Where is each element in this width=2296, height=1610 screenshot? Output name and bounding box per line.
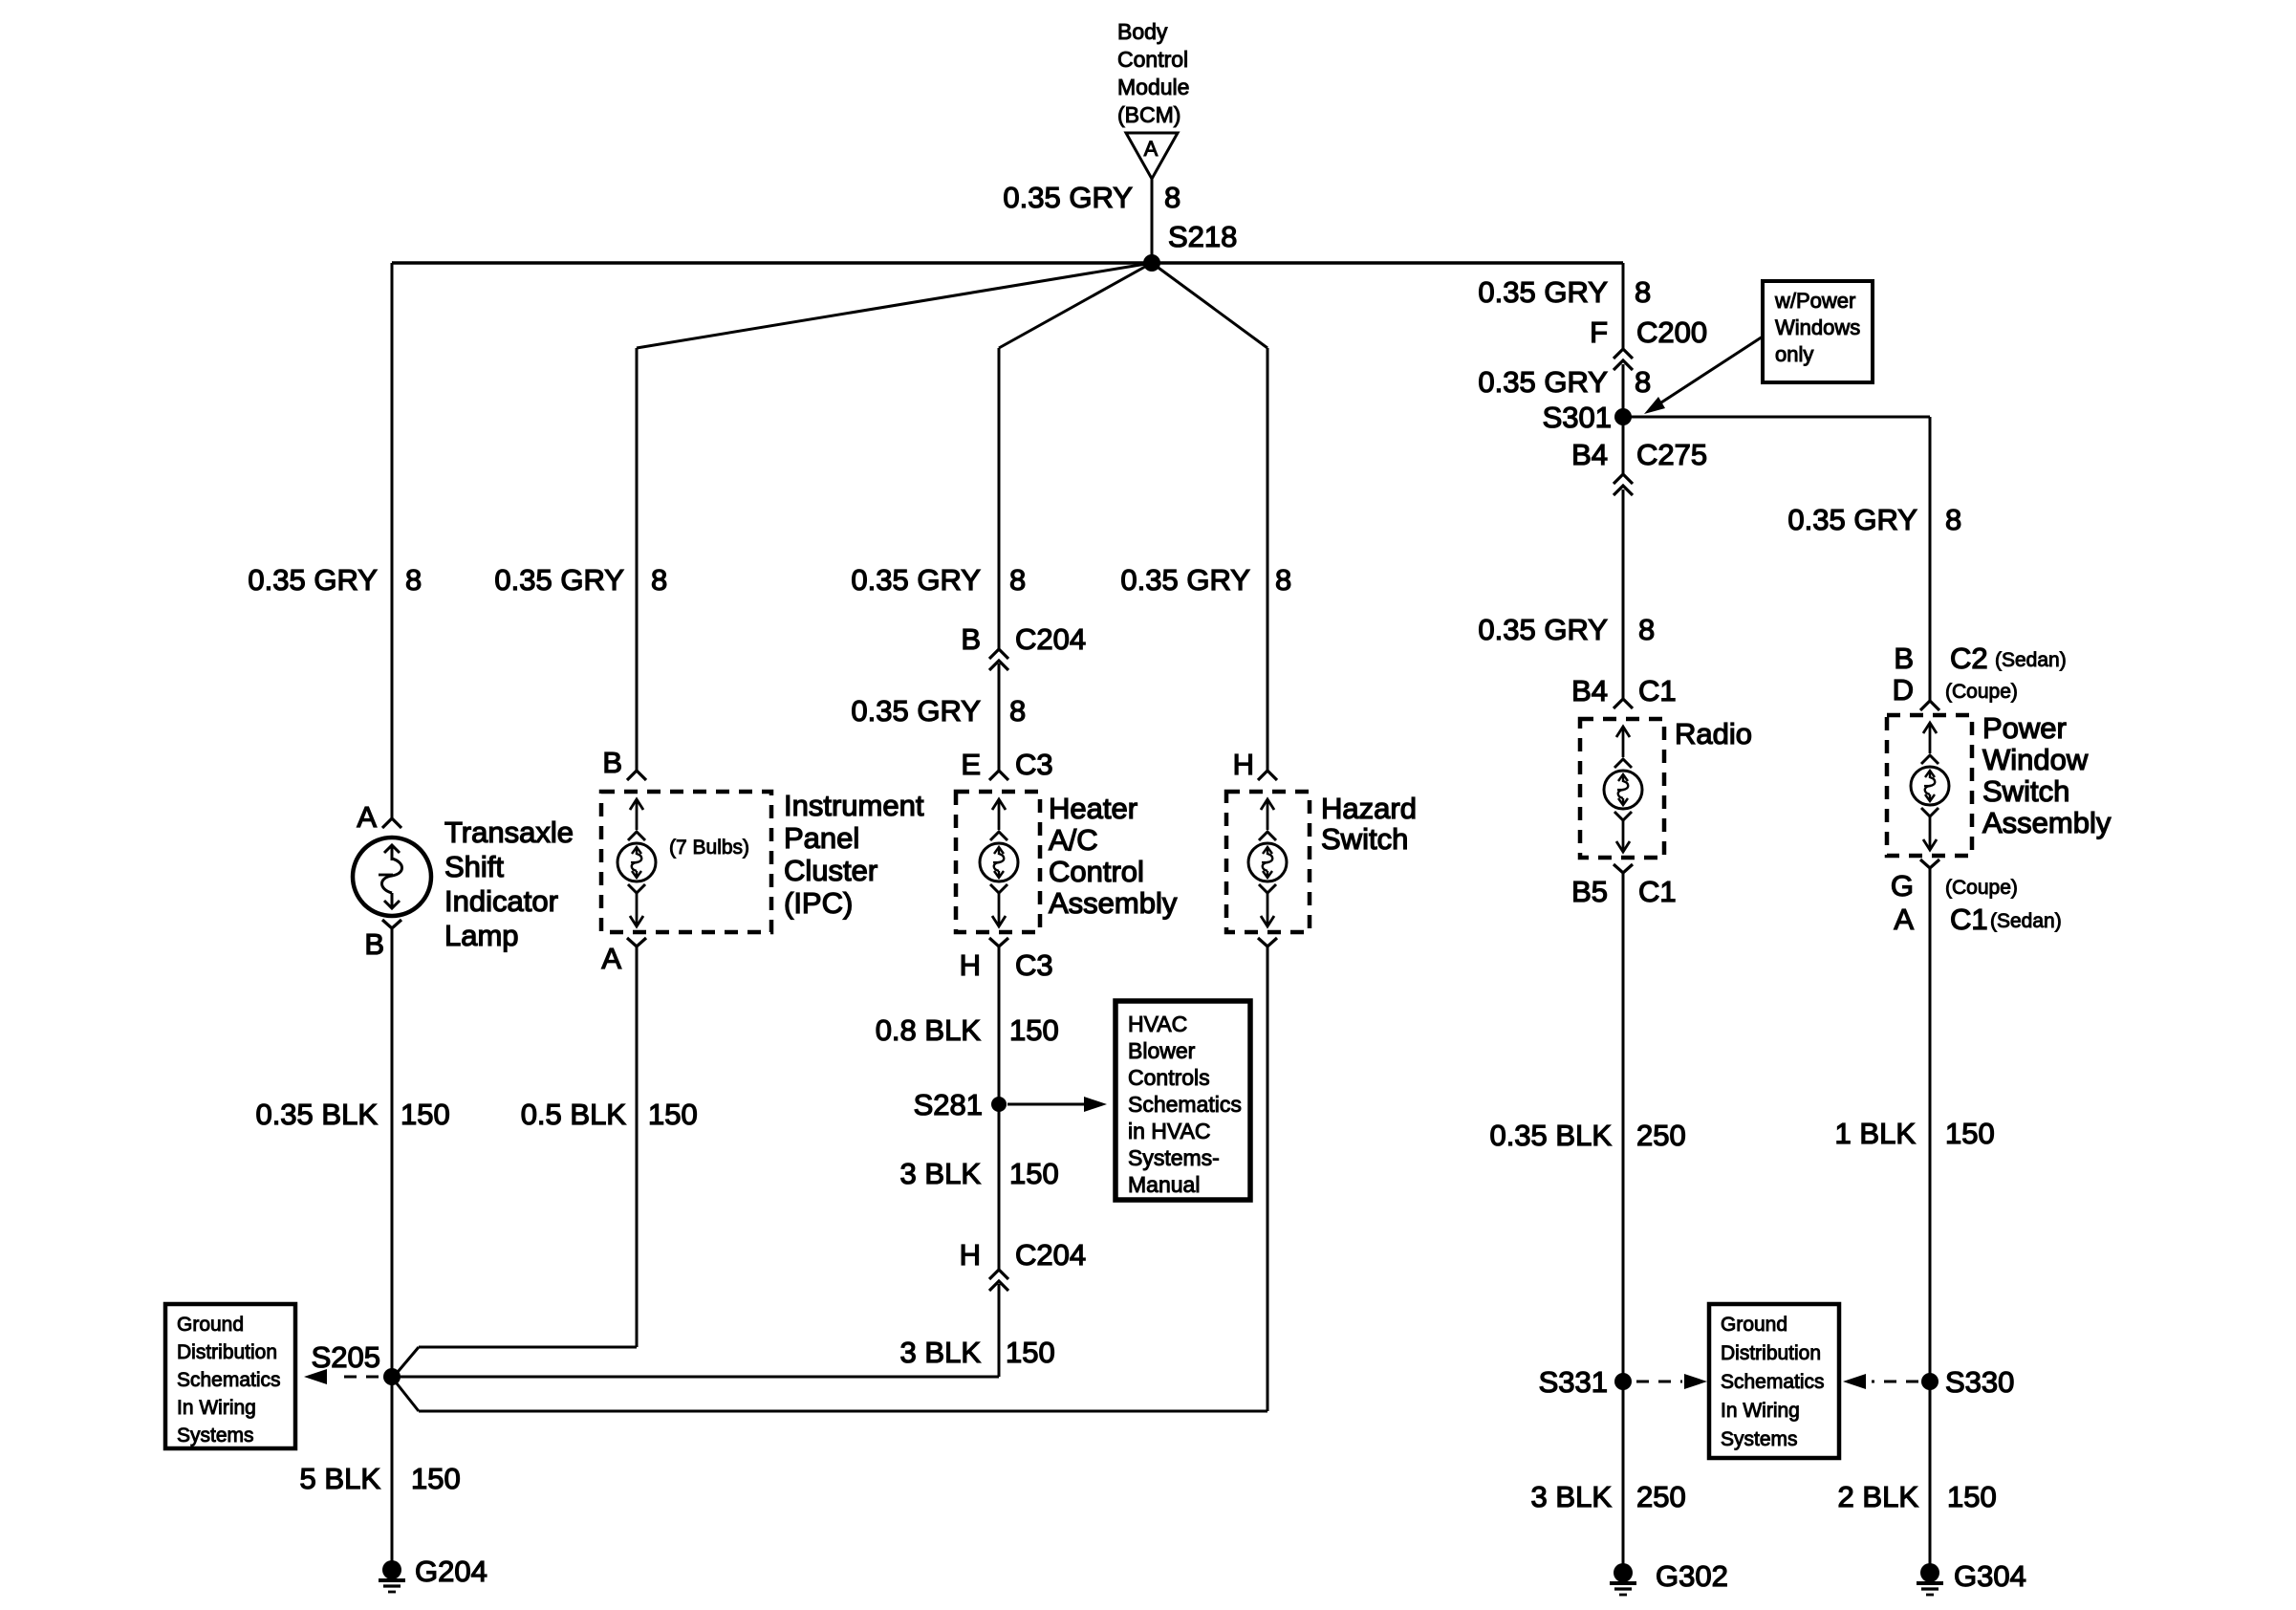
svg-text:C275: C275 [1636,438,1707,471]
svg-text:D: D [1893,673,1914,707]
svg-text:Shift: Shift [444,850,504,883]
svg-text:S301: S301 [1543,401,1612,434]
svg-text:Blower: Blower [1128,1038,1196,1063]
svg-text:B: B [961,622,981,656]
svg-text:B4: B4 [1571,438,1608,471]
svg-text:S331: S331 [1539,1365,1608,1399]
svg-text:Assembly: Assembly [1982,806,2112,839]
svg-text:Distribution: Distribution [1721,1342,1821,1364]
svg-text:Systems-: Systems- [1128,1145,1220,1170]
svg-text:1 BLK: 1 BLK [1835,1117,1917,1150]
svg-text:0.35 GRY: 0.35 GRY [494,563,624,597]
svg-text:0.8 BLK: 0.8 BLK [876,1013,982,1047]
svg-text:In Wiring: In Wiring [177,1397,256,1419]
svg-text:Heater: Heater [1049,792,1137,825]
svg-text:Module: Module [1117,75,1189,99]
svg-text:Systems: Systems [177,1425,254,1447]
svg-text:C200: C200 [1636,315,1707,349]
svg-text:250: 250 [1636,1119,1686,1152]
svg-text:3 BLK: 3 BLK [900,1336,982,1369]
svg-text:3 BLK: 3 BLK [900,1157,982,1190]
svg-text:3 BLK: 3 BLK [1531,1480,1613,1513]
svg-text:H: H [1233,748,1254,781]
svg-text:Controls: Controls [1128,1065,1210,1090]
svg-text:A: A [1144,137,1159,161]
svg-text:150: 150 [411,1462,461,1495]
svg-text:S281: S281 [914,1088,983,1121]
svg-text:8: 8 [1275,563,1291,597]
svg-text:Body: Body [1117,19,1168,44]
svg-text:A: A [601,942,621,975]
svg-text:(Coupe): (Coupe) [1945,681,2018,703]
svg-text:250: 250 [1636,1480,1686,1513]
svg-text:B: B [602,746,622,779]
svg-text:Radio: Radio [1675,717,1752,751]
svg-text:8: 8 [1945,503,1961,536]
svg-text:0.35 GRY: 0.35 GRY [1478,275,1608,309]
svg-text:Control: Control [1049,855,1144,888]
svg-text:8: 8 [1635,275,1651,309]
svg-text:C3: C3 [1015,948,1053,982]
svg-text:A: A [1894,903,1914,936]
svg-text:150: 150 [1945,1117,1995,1150]
svg-text:0.35 GRY: 0.35 GRY [851,563,981,597]
svg-text:Switch: Switch [1982,774,2069,808]
svg-text:(7 Bulbs): (7 Bulbs) [669,837,749,859]
svg-text:C204: C204 [1015,622,1086,656]
svg-text:Panel: Panel [784,821,859,855]
svg-text:In Wiring: In Wiring [1721,1400,1800,1422]
svg-text:8: 8 [1635,365,1651,399]
svg-text:B: B [364,927,384,961]
svg-text:8: 8 [1009,694,1026,728]
svg-text:B: B [1894,642,1914,675]
svg-text:150: 150 [1947,1480,1997,1513]
svg-text:(Sedan): (Sedan) [1995,649,2067,671]
svg-text:Lamp: Lamp [444,919,519,952]
svg-text:150: 150 [1009,1157,1059,1190]
svg-text:8: 8 [1164,181,1180,214]
svg-text:150: 150 [648,1098,698,1131]
svg-text:Ground: Ground [1721,1314,1787,1336]
svg-text:C1: C1 [1638,875,1677,908]
svg-text:150: 150 [401,1098,450,1131]
svg-text:0.35 GRY: 0.35 GRY [1478,365,1608,399]
svg-text:2 BLK: 2 BLK [1838,1480,1919,1513]
svg-text:8: 8 [1638,613,1655,646]
svg-text:Windows: Windows [1775,315,1860,339]
svg-text:(Coupe): (Coupe) [1945,877,2018,899]
svg-text:Hazard: Hazard [1321,792,1417,825]
svg-text:0.35 GRY: 0.35 GRY [1120,563,1250,597]
svg-text:8: 8 [405,563,422,597]
svg-text:G302: G302 [1656,1559,1728,1593]
svg-text:Manual: Manual [1128,1172,1200,1197]
svg-text:Indicator: Indicator [444,884,558,918]
svg-text:Window: Window [1982,743,2089,776]
svg-text:Assembly: Assembly [1049,886,1178,920]
svg-text:Power: Power [1982,711,2067,745]
svg-text:C3: C3 [1015,748,1053,781]
svg-text:S218: S218 [1168,220,1237,253]
svg-text:F: F [1590,315,1608,349]
svg-text:(BCM): (BCM) [1117,102,1180,127]
svg-text:0.35 GRY: 0.35 GRY [1787,503,1917,536]
svg-text:HVAC: HVAC [1128,1012,1187,1036]
svg-text:in HVAC: in HVAC [1128,1119,1211,1143]
svg-text:H: H [960,1238,981,1272]
svg-text:(Sedan): (Sedan) [1990,910,2062,932]
svg-text:S330: S330 [1945,1365,2014,1399]
svg-text:0.35 BLK: 0.35 BLK [255,1098,378,1131]
svg-text:(IPC): (IPC) [784,886,853,920]
svg-text:C204: C204 [1015,1238,1086,1272]
svg-text:0.35 GRY: 0.35 GRY [248,563,378,597]
svg-text:0.5 BLK: 0.5 BLK [521,1098,627,1131]
svg-text:G304: G304 [1954,1559,2026,1593]
svg-text:w/Power: w/Power [1774,289,1855,313]
svg-text:G204: G204 [415,1555,487,1588]
svg-text:0.35 GRY: 0.35 GRY [1003,181,1133,214]
svg-text:8: 8 [651,563,667,597]
svg-text:C1: C1 [1638,674,1677,707]
svg-text:Systems: Systems [1721,1428,1798,1450]
svg-text:Distribution: Distribution [177,1341,277,1363]
svg-text:B5: B5 [1571,875,1608,908]
svg-text:B4: B4 [1571,674,1608,707]
svg-text:A/C: A/C [1049,823,1098,857]
svg-text:Schematics: Schematics [1128,1092,1242,1117]
svg-text:150: 150 [1009,1013,1059,1047]
svg-text:C1: C1 [1950,903,1988,936]
svg-text:Switch: Switch [1321,822,1408,856]
svg-text:5 BLK: 5 BLK [300,1462,381,1495]
svg-text:Schematics: Schematics [177,1369,281,1391]
svg-text:8: 8 [1009,563,1026,597]
svg-text:A: A [357,800,377,834]
svg-text:C2: C2 [1950,642,1988,675]
svg-text:Cluster: Cluster [784,854,877,887]
svg-text:0.35 GRY: 0.35 GRY [851,694,981,728]
svg-text:only: only [1775,342,1813,366]
svg-text:150: 150 [1006,1336,1055,1369]
svg-text:H: H [960,948,981,982]
svg-text:Transaxle: Transaxle [444,816,574,849]
svg-text:0.35 BLK: 0.35 BLK [1489,1119,1612,1152]
svg-text:Control: Control [1117,47,1188,72]
svg-text:Ground: Ground [177,1314,244,1336]
svg-text:Instrument: Instrument [784,789,924,822]
svg-text:0.35 GRY: 0.35 GRY [1478,613,1608,646]
svg-text:G: G [1891,869,1914,903]
svg-text:Schematics: Schematics [1721,1371,1825,1393]
svg-text:E: E [961,748,981,781]
svg-text:S205: S205 [312,1340,380,1374]
